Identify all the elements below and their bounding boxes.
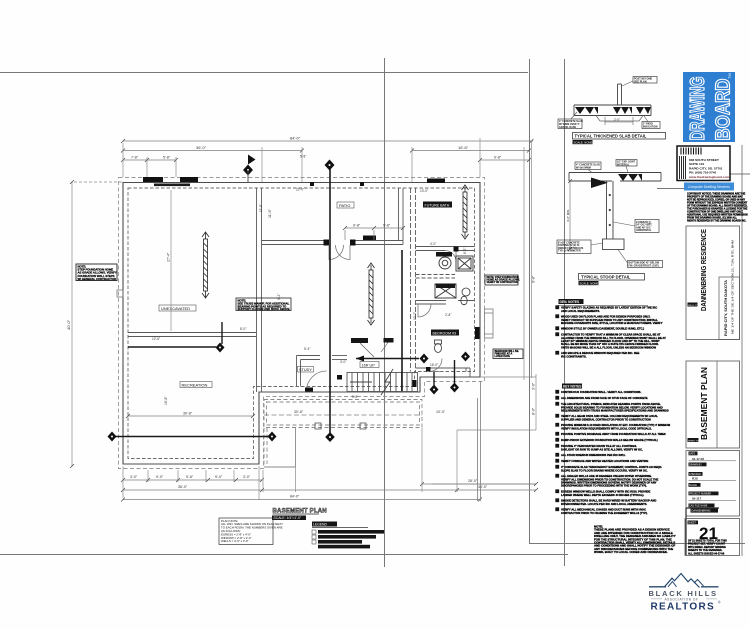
bottom-right step lines	[432, 377, 536, 501]
svg-text:REQUIREMENTS WITH TRUSS MANUFA: REQUIREMENTS WITH TRUSS MANUFACTURER SPE…	[561, 409, 669, 413]
svg-text:04-17-06: 04-17-06	[692, 457, 704, 461]
svg-text:27'-4": 27'-4"	[167, 252, 171, 262]
interior wall patio-room right	[399, 188, 404, 245]
floor notes header	[562, 384, 582, 389]
stoop-detail vertical dim	[568, 179, 572, 251]
svg-text:05-117: 05-117	[692, 496, 702, 500]
footing dashed outline	[119, 178, 485, 469]
svg-text:SUPPORT FLOORS AND ROOF ABOVE: SUPPORT FLOORS AND ROOF ABOVE	[238, 307, 290, 311]
diamond x330 top	[325, 160, 335, 171]
PLAN	[108, 155, 494, 469]
dim porch row	[264, 414, 422, 416]
svg-text:5'-8": 5'-8"	[383, 224, 391, 228]
label RECREATION	[180, 382, 212, 388]
dim line top row2-right	[410, 149, 531, 153]
door jamb hall	[337, 375, 342, 380]
egress window marker east	[475, 327, 480, 339]
beam stub bedroom2	[454, 360, 456, 383]
svg-text:GEN. NOTES: GEN. NOTES	[560, 300, 580, 304]
beam stub bedroom1	[433, 372, 435, 385]
svg-text:MATERIAL: MATERIAL	[617, 163, 630, 166]
svg-text:11'-6": 11'-6"	[268, 208, 272, 218]
interior wall bath y302	[416, 301, 475, 305]
dim texts bottom row3	[290, 495, 300, 499]
svg-text:PROJECT NUMBER: PROJECT NUMBER	[689, 493, 711, 496]
stoop-detail label left-bottom	[557, 240, 603, 254]
svg-text:36'-0": 36'-0"	[178, 485, 188, 489]
svg-text:7'-8": 7'-8"	[131, 156, 139, 160]
wall marker right-of-stairs	[412, 380, 417, 387]
label 16R-UP	[360, 362, 379, 368]
diamond bedroom4	[461, 352, 470, 362]
svg-text:LADDER WHERE WELL DEPTH EXCEED: LADDER WHERE WELL DEPTH EXCEEDS 44 INCHE…	[561, 493, 644, 497]
svg-text:4'-0": 4'-0"	[430, 242, 436, 246]
svg-text:STUDY: STUDY	[299, 368, 312, 372]
svg-text:TYP. @ PERIMETER: TYP. @ PERIMETER	[558, 250, 581, 253]
svg-text:10'-0": 10'-0"	[436, 410, 446, 414]
svg-text:ALL DIMENSIONS ARE FROM FACE O: ALL DIMENSIONS ARE FROM FACE OF STUD FAC…	[561, 396, 648, 400]
furnace	[456, 256, 473, 271]
dim line top row2-left	[121, 149, 304, 153]
diamond bedroom2	[450, 383, 459, 393]
wall tick 1	[310, 182, 314, 186]
exterior wall inner face	[128, 188, 475, 459]
svg-text:5'-8": 5'-8"	[186, 475, 194, 479]
door jamb bath-hall	[454, 247, 459, 252]
slab-detail post	[618, 84, 622, 105]
interior wall rec-room top	[128, 333, 257, 337]
stairs	[347, 373, 418, 392]
stoop-detail label exp-joint	[616, 160, 637, 173]
connector line stoop-to-titleblock	[657, 188, 686, 190]
slab-detail label right	[642, 116, 660, 129]
dim texts bottom row1	[130, 475, 251, 479]
svg-text:CAD FILE NAME: CAD FILE NAME	[689, 505, 708, 508]
window marker top-wall 2	[180, 177, 198, 182]
fold line vertical center-right	[529, 59, 531, 543]
svg-text:REALTORS: REALTORS	[651, 602, 715, 613]
svg-text:3'-0": 3'-0"	[340, 360, 346, 364]
svg-text:WINDOW STYLE BY OWNER (CASEMEN: WINDOW STYLE BY OWNER (CASEMENT, DOUBLE …	[561, 327, 644, 331]
interior wall bath y246	[416, 247, 475, 251]
svg-text:30'-8": 30'-8"	[183, 412, 193, 416]
svg-text:RECREATION: RECREATION	[182, 382, 208, 387]
DETAILS	[557, 77, 666, 286]
sink1	[462, 288, 470, 296]
wall tick 2	[360, 182, 364, 186]
diamond bedroom3	[420, 354, 429, 364]
label laundry	[436, 252, 452, 257]
svg-text:LEGEND: LEGEND	[313, 523, 327, 527]
svg-text:LATER DATE: LATER DATE	[495, 355, 511, 358]
label hall 2	[384, 338, 394, 343]
svg-text:INTERCONNECTED. LOCATE PER IRC: INTERCONNECTED. LOCATE PER IRC AND LOCAL…	[561, 502, 647, 506]
address lines	[688, 158, 730, 179]
door arc study	[307, 371, 327, 391]
svg-text:9'-0": 9'-0"	[215, 475, 223, 479]
fold line horizontal titleblock-bottom	[529, 543, 745, 545]
svg-text:SUPPLIER AND GENERAL CONTRACTO: SUPPLIER AND GENERAL CONTRACTOR PRIOR TO…	[561, 417, 651, 421]
stoop-detail label bottom	[618, 250, 663, 268]
beam stub rec-room	[221, 322, 223, 344]
legend list	[312, 522, 384, 549]
svg-text:16'-0": 16'-0"	[430, 363, 438, 367]
egress window marker patio-room	[363, 236, 376, 241]
bottom dim row-right	[420, 482, 538, 486]
bottom dim row3	[121, 498, 482, 502]
stoop-detail label right	[614, 220, 660, 233]
svg-text:6'-2": 6'-2"	[463, 248, 467, 254]
svg-text:UNITS MASONS WILL BE A ALL FLO: UNITS MASONS WILL BE A ALL FLOOR, UNLESS…	[561, 345, 657, 349]
svg-text:13'-0": 13'-0"	[420, 189, 428, 193]
svg-text:Computer Drafting Services: Computer Drafting Services	[688, 185, 730, 189]
blue services strip	[684, 183, 734, 191]
svg-text:WORK. BUILT TO LOCAL CODES AND: WORK. BUILT TO LOCAL CODES AND ORDINANCE…	[594, 550, 668, 554]
svg-text:9'-8": 9'-8"	[494, 156, 502, 160]
svg-text:www.thedrawingboard.com: www.thedrawingboard.com	[688, 175, 730, 179]
interior dim patio-room	[343, 226, 405, 240]
svg-text:BOARD: BOARD	[713, 79, 735, 141]
fold line vertical center-left	[384, 58, 386, 567]
interior wall bedroom bottom	[416, 368, 471, 377]
WH circle	[439, 257, 451, 269]
diamond beam-left	[108, 432, 117, 442]
svg-text:10'-2": 10'-2"	[413, 312, 417, 320]
porch footing squares	[315, 423, 321, 429]
svg-text:4'-0" MIN.: 4'-0" MIN.	[566, 209, 570, 222]
fold line vertical notes-left	[564, 59, 566, 566]
svg-text:DAMP-PROOF EXTERIOR FOUNDATION: DAMP-PROOF EXTERIOR FOUNDATION WALLS BEL…	[561, 438, 658, 442]
svg-text:SLOPE SLAB TO FLOOR DRAINS WHE: SLOPE SLAB TO FLOOR DRAINS WHERE OCCURS.…	[561, 468, 648, 472]
slab-detail slab lines	[574, 105, 651, 121]
porch dashed slab	[264, 400, 422, 428]
door jamb bedroom	[426, 367, 431, 372]
hatched beam arrow left-room	[202, 232, 209, 298]
svg-text:9'-0": 9'-0"	[156, 475, 164, 479]
door jambs patio french door	[324, 240, 330, 246]
slab-detail title	[573, 133, 666, 145]
label STUDY	[298, 367, 314, 373]
svg-text:9'-8": 9'-8"	[532, 275, 536, 283]
diamond x330 bottom	[325, 432, 335, 442]
beam hall horizontal	[356, 356, 419, 362]
toilet2	[435, 340, 442, 353]
bottom dim row1	[121, 478, 264, 482]
svg-text:FUTURE BATH: FUTURE BATH	[425, 203, 450, 207]
door arc bath2	[418, 304, 431, 317]
THE striped left column	[680, 156, 686, 179]
PLAN-DIMS	[66, 136, 538, 549]
TITLEBLOCK	[685, 145, 748, 556]
stoop-detail hatch	[618, 174, 642, 181]
svg-text:TYPICAL STOOP DETAIL: TYPICAL STOOP DETAIL	[581, 275, 631, 280]
stoop-detail arrow	[591, 178, 608, 189]
note box bedroom	[493, 349, 523, 359]
svg-text:®: ®	[718, 601, 721, 605]
drawing board blue block	[683, 72, 735, 142]
stoop-detail wall stem	[607, 181, 614, 239]
diamond flag top	[243, 155, 256, 183]
address box	[677, 146, 730, 181]
svg-text:DATE: DATE	[689, 453, 696, 456]
french door arcs	[329, 245, 350, 260]
svg-text:DAYLIGHT OR RUN TO SUMP AS SIT: DAYLIGHT OR RUN TO SUMP AS SITE ALLOWS. …	[561, 447, 643, 451]
bottom note paragraph	[594, 525, 676, 555]
svg-text:TYPICAL THICKENED SLAB DETAIL: TYPICAL THICKENED SLAB DETAIL	[575, 134, 647, 139]
svg-text:WELLS = 3'-0" x 3'-0": WELLS = 3'-0" x 3'-0"	[221, 539, 249, 543]
general notes items	[556, 306, 667, 359]
svg-text:28'-0": 28'-0"	[468, 479, 478, 483]
svg-text:3'-0": 3'-0"	[130, 475, 138, 479]
svg-text:5'-8": 5'-8"	[300, 155, 306, 159]
exterior wall outer face	[123, 183, 480, 465]
project title box	[686, 226, 740, 340]
future shower	[435, 284, 456, 298]
hatched beam arrow bath	[462, 185, 469, 239]
svg-text:CONTINUOUS FOUNDATION WALL. VE: CONTINUOUS FOUNDATION WALL. VERIFY ALL C…	[561, 390, 641, 394]
svg-text:3'-0": 3'-0"	[243, 475, 251, 479]
beam rec-room upper	[128, 346, 216, 348]
svg-text:VERIFY W/ CONTRACTOR: VERIFY W/ CONTRACTOR	[487, 281, 518, 284]
svg-text:30'-8": 30'-8"	[294, 410, 304, 414]
egress window marker bath	[427, 179, 445, 184]
svg-text:RAPID CITY, SOUTH DAKOTA: RAPID CITY, SOUTH DAKOTA	[724, 280, 728, 336]
window marker top-wall 1	[143, 177, 163, 182]
sheet title box	[686, 361, 740, 448]
label shower	[436, 284, 455, 289]
svg-text:ALL STAIR RISE/RUN DIMENSIONS: ALL STAIR RISE/RUN DIMENSIONS PER IRC R3…	[561, 453, 626, 457]
door jamb study	[305, 388, 313, 392]
diamond beam-right	[268, 432, 277, 442]
interior wall left-wing/hall	[257, 188, 262, 392]
bottom dim row2	[121, 488, 538, 492]
svg-text:BEDROOM #3: BEDROOM #3	[433, 331, 457, 335]
interior wall bath y276	[416, 275, 456, 279]
bottom extension lines	[123, 381, 481, 501]
stoop-detail label top-left	[575, 162, 601, 173]
svg-text:TM: TM	[727, 73, 732, 79]
label UNEXCAVATED	[159, 305, 196, 311]
NOTES	[556, 299, 676, 554]
svg-text:16R UP: 16R UP	[362, 363, 376, 367]
stairs break line	[381, 369, 393, 395]
svg-text:16'-8": 16'-8"	[164, 396, 168, 405]
interior vertical dim left-room	[170, 190, 172, 331]
svg-text:INSULATION: INSULATION	[643, 125, 658, 128]
svg-text:PATIO: PATIO	[339, 203, 350, 208]
svg-text:40'-0": 40'-0"	[66, 319, 71, 330]
svg-text:2'-0": 2'-0"	[614, 118, 620, 122]
svg-text:KEY NOTES: KEY NOTES	[563, 385, 581, 389]
svg-text:46'-0": 46'-0"	[478, 485, 488, 489]
dim line top row3-right	[478, 158, 531, 162]
svg-text:RIGHTS RESERVED BY THE DRAWING: RIGHTS RESERVED BY THE DRAWING BOARD INC…	[687, 220, 747, 223]
svg-text:HORIZONTAL: HORIZONTAL	[636, 229, 652, 232]
svg-text:SCALE: SCALE	[689, 484, 697, 487]
svg-text:VERIFY INSULATION REQUIREMENTS: VERIFY INSULATION REQUIREMENTS WITH LOCA…	[561, 426, 652, 430]
leader lines hall labels	[360, 343, 388, 358]
stoop-detail slab	[569, 173, 661, 182]
svg-text:SCALE: 1/4"=1'-0": SCALE: 1/4"=1'-0"	[274, 516, 302, 520]
note box step-foundation left	[76, 264, 117, 281]
sheet number box	[685, 519, 740, 556]
stoop-detail footing	[603, 239, 625, 250]
svg-text:9'-2": 9'-2"	[277, 294, 281, 300]
LOGOS	[649, 72, 736, 613]
slab-detail post label	[622, 77, 657, 87]
svg-text:16'-6": 16'-6"	[458, 145, 469, 150]
hatched beam arrow hall	[368, 263, 375, 325]
window well left wall	[117, 290, 123, 297]
svg-text:GRAVEL BASE: GRAVEL BASE	[559, 126, 576, 129]
svg-text:IRC CONSTRAINTS.: IRC CONSTRAINTS.	[561, 354, 587, 358]
slab-detail hatch left	[575, 107, 598, 114]
svg-text:CONTRACTOR PRIOR TO FRAMING TH: CONTRACTOR PRIOR TO FRAMING THE BASEMENT…	[561, 511, 648, 515]
svg-text:5'-8": 5'-8"	[163, 156, 171, 160]
beam vertical x330	[329, 169, 331, 433]
svg-text:FIN. GRADE/FROST LEVEL: FIN. GRADE/FROST LEVEL	[629, 264, 660, 267]
study walls	[297, 356, 348, 387]
label hall 1	[351, 338, 368, 343]
svg-text:12'-6": 12'-6"	[152, 337, 160, 341]
svg-text:MACHINE COVENANTS SIZE, STYLE,: MACHINE COVENANTS SIZE, STYLE, LOCATION …	[561, 321, 663, 325]
svg-text:DANNENBRING RESIDENCE: DANNENBRING RESIDENCE	[699, 229, 708, 311]
slab-detail dim	[605, 117, 633, 125]
svg-text:9'-8": 9'-8"	[352, 395, 358, 399]
dim line top row1	[121, 139, 534, 143]
svg-text:ALL SHEETS ISSUED 04-17-06: ALL SHEETS ISSUED 04-17-06	[688, 552, 725, 555]
fold line horizontal top	[0, 72, 528, 74]
dim line top row3-left	[121, 158, 178, 162]
stairs up arrow	[350, 381, 372, 383]
svg-text:PROVIDE POSITIVE DRAINAGE AWAY: PROVIDE POSITIVE DRAINAGE AWAY FROM FOUN…	[561, 432, 666, 436]
fold line horizontal bottom	[0, 554, 568, 556]
svg-text:11'-6": 11'-6"	[259, 204, 263, 212]
svg-text:SHEET: SHEET	[688, 522, 697, 525]
beam rec-room	[112, 436, 272, 438]
realtors text ASSOCIATION OF	[651, 598, 717, 602]
interior dim rec-room	[126, 414, 255, 418]
svg-text:SCALE: NONE: SCALE: NONE	[574, 140, 593, 144]
svg-text:84'-0": 84'-0"	[290, 136, 301, 141]
svg-text:DRAWN BY: DRAWN BY	[689, 464, 702, 467]
window well east	[485, 309, 494, 338]
stoop-detail title	[579, 274, 645, 286]
svg-text:AND LOCAL REQUIREMENTS.: AND LOCAL REQUIREMENTS.	[561, 309, 600, 313]
realtors logo mountain	[649, 574, 719, 588]
label PATIO	[337, 202, 354, 208]
svg-text:DRAWING: DRAWING	[687, 77, 709, 141]
fold mark dark L	[686, 508, 719, 555]
slab-detail hatch right	[636, 107, 651, 114]
general notes header	[559, 299, 649, 306]
interior wall bath west	[411, 188, 416, 372]
svg-text:SCALE: NONE: SCALE: NONE	[580, 281, 599, 285]
slab-detail label left	[558, 112, 583, 129]
svg-text:VERIFY FURNACE AND WATER HEATE: VERIFY FURNACE AND WATER HEATER LOCATION…	[561, 459, 648, 463]
svg-text:5'-4": 5'-4"	[304, 347, 310, 351]
diamond bedroom1	[430, 385, 439, 395]
svg-text:22'-0": 22'-0"	[296, 188, 304, 192]
svg-text:84'-0": 84'-0"	[290, 495, 300, 499]
plan note box	[219, 518, 283, 545]
svg-text:UNEXCAVATED: UNEXCAVATED	[161, 306, 190, 311]
svg-text:DANNENBRING: DANNENBRING	[692, 509, 711, 513]
toilet bowl	[461, 296, 467, 304]
svg-text:9'-8": 9'-8"	[353, 224, 361, 228]
floor notes items	[556, 390, 671, 515]
left extension line	[70, 180, 123, 468]
door arc bath1	[445, 251, 456, 262]
interior wall patio-room bottom	[262, 241, 404, 245]
THE striped header	[681, 148, 701, 155]
label BEDROOM	[431, 330, 459, 336]
beam vertical x402	[401, 250, 403, 391]
svg-text:W/ 6x6 WWM: W/ 6x6 WWM	[576, 166, 591, 169]
svg-text:SEE PLAN: SEE PLAN	[634, 80, 647, 83]
svg-text:BASEMENT PLAN: BASEMENT PLAN	[699, 367, 709, 440]
dim texts bottom row2	[178, 485, 488, 489]
extension lines top	[123, 138, 536, 430]
svg-text:36'-0": 36'-0"	[196, 145, 207, 150]
door arc bedroom	[429, 359, 442, 372]
connector line address-to-edge	[730, 173, 750, 175]
right border line	[741, 145, 743, 556]
plan title	[272, 509, 327, 521]
svg-text:3'-0": 3'-0"	[532, 382, 536, 390]
svg-text:8'-0": 8'-0"	[240, 327, 246, 331]
note box step-foundation right	[485, 275, 520, 285]
stoop below porch	[264, 428, 296, 467]
label FUTURE BATH	[423, 202, 452, 208]
misc small dim texts	[152, 155, 467, 400]
note box truss	[236, 298, 291, 311]
svg-text:NE 1/4 OF THE SE 1/4 OF SECTIO: NE 1/4 OF THE SE 1/4 OF SECTION 21, T1N,…	[732, 240, 735, 334]
svg-text:RJS: RJS	[692, 476, 698, 480]
info box	[686, 451, 740, 517]
wall dark segment top-left	[154, 184, 190, 187]
svg-text:8'-0": 8'-0"	[532, 407, 536, 415]
slab-detail hatch mid	[613, 107, 632, 114]
svg-text:W/ GENERAL CONTRACTOR: W/ GENERAL CONTRACTOR	[78, 277, 116, 281]
svg-text:DISCREPANCIES PRIOR TO PROCEED: DISCREPANCIES PRIOR TO PROCEEDING WITH T…	[561, 484, 647, 488]
svg-text:2'-8": 2'-8"	[445, 313, 451, 317]
copyright block	[687, 193, 748, 223]
diamond y347	[216, 343, 225, 353]
